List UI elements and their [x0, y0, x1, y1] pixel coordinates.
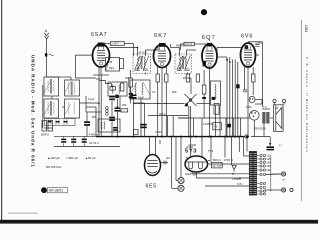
svg-text:2-40 T: 2-40 T	[111, 42, 119, 46]
svg-text:4x7 µF: 4x7 µF	[185, 43, 193, 46]
svg-text:6K7: 6K7	[154, 33, 168, 39]
svg-text:455 A: 455 A	[159, 112, 166, 116]
svg-text:25KΩ: 25KΩ	[105, 65, 108, 71]
svg-text:2-8KV: 2-8KV	[256, 42, 263, 45]
svg-text:50K: 50K	[92, 116, 97, 119]
svg-text:1700 Ω: 1700 Ω	[224, 158, 234, 162]
svg-text:25K: 25K	[122, 104, 127, 107]
svg-text:0.1µF: 0.1µF	[88, 98, 95, 101]
svg-text:50µF: 50µF	[109, 67, 115, 70]
svg-text:6V6: 6V6	[241, 34, 253, 40]
svg-text:500 Ω: 500 Ω	[213, 158, 222, 162]
svg-text:A: A	[45, 29, 48, 33]
svg-text:465: 465	[125, 76, 130, 80]
svg-text:25K: 25K	[96, 77, 101, 81]
svg-text:V.053: V.053	[155, 130, 162, 134]
svg-text:Ω3Ω: Ω3Ω	[185, 172, 190, 176]
svg-text:UNDA RADIO - Mod. Sex Unda R 6: UNDA RADIO - Mod. Sex Unda R 66/1	[31, 55, 36, 167]
svg-text:1/84: 1/84	[304, 25, 309, 34]
svg-text:5Y3: 5Y3	[185, 149, 197, 155]
svg-text:GR.38/51: GR.38/51	[49, 189, 64, 193]
svg-text:F.Ris: F.Ris	[246, 106, 252, 109]
svg-text:AF 51.2: AF 51.2	[89, 141, 99, 145]
svg-text:B: B	[43, 188, 46, 193]
svg-text:6Q7: 6Q7	[202, 35, 216, 41]
svg-text:MF 455 KHz: MF 455 KHz	[46, 165, 62, 169]
svg-text:AF 50.1: AF 50.1	[138, 51, 147, 54]
svg-text:T.U.: T.U.	[263, 105, 268, 109]
svg-text:6SA7: 6SA7	[91, 32, 107, 38]
svg-text:T.I.: T.I.	[279, 145, 283, 148]
svg-text:44µF: 44µF	[138, 96, 144, 100]
svg-text:6E5: 6E5	[146, 184, 157, 190]
svg-text:▭500 µF: ▭500 µF	[66, 156, 78, 160]
svg-text:160: 160	[267, 165, 272, 168]
svg-text:Λ63Ω0: Λ63Ω0	[188, 143, 197, 147]
svg-text:50K: 50K	[172, 90, 177, 94]
svg-text:TRIODO U: TRIODO U	[254, 128, 266, 131]
svg-text:BSP A: BSP A	[41, 133, 49, 137]
svg-text:TUT: TUT	[217, 165, 222, 168]
svg-text:C. B. Amatore - Il Mondo del R: C. B. Amatore - Il Mondo del Radioamator…	[305, 57, 309, 152]
svg-text:0.1: 0.1	[152, 90, 156, 94]
svg-text:▲100 µF: ▲100 µF	[47, 156, 60, 160]
svg-text:2M: 2M	[166, 156, 170, 160]
svg-text:2-46: 2-46	[107, 60, 113, 64]
svg-text:a~: a~	[283, 179, 286, 182]
svg-text:220: 220	[267, 169, 272, 172]
svg-text:6V: 6V	[213, 165, 216, 168]
svg-text:4-480 µF: 4-480 µF	[89, 132, 100, 136]
svg-text:▲50 µF: ▲50 µF	[85, 156, 96, 160]
svg-text:6.3V: 6.3V	[237, 183, 242, 186]
